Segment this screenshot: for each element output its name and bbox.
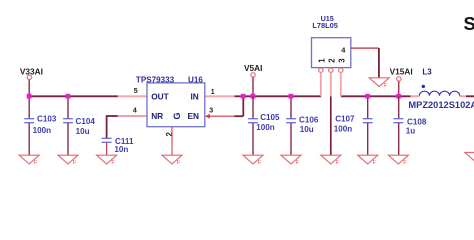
ground (C105) <box>243 155 263 166</box>
power port V33AI <box>20 66 43 96</box>
svg-text:V5AI: V5AI <box>244 63 262 73</box>
capacitor C106 <box>286 96 319 155</box>
svg-text:10u: 10u <box>76 127 90 136</box>
regulator U15 L78L05 box <box>312 14 351 68</box>
ground (right edge partial) <box>465 152 474 163</box>
wire main bus segment middle (V5AI net) <box>235 95 322 97</box>
svg-text:1: 1 <box>211 89 215 96</box>
svg-text:C105: C105 <box>260 113 280 122</box>
junction EN tie <box>240 93 246 99</box>
ground (C107) <box>358 155 378 166</box>
capacitor C105 <box>248 96 280 155</box>
svg-text:V33AI: V33AI <box>20 66 43 76</box>
wire NR elbow to C111 <box>107 115 148 138</box>
capacitor C107 <box>334 96 373 155</box>
U15 pin 4 wire <box>351 48 379 78</box>
ground (C104) <box>58 155 78 166</box>
wire EN tie to IN net <box>234 115 243 117</box>
capacitor C103 <box>24 96 57 155</box>
wire pin stub U16 pin5 <box>118 95 148 97</box>
junction V15AI <box>396 93 402 99</box>
svg-text:U16: U16 <box>188 76 203 85</box>
wire main bus segment right (V15AI net) <box>341 95 411 97</box>
svg-text:EN: EN <box>188 111 200 121</box>
junction C104 <box>65 93 71 99</box>
svg-text:100n: 100n <box>256 123 275 132</box>
svg-text:100n: 100n <box>33 126 52 135</box>
svg-text:MPZ2012S102AT: MPZ2012S102AT <box>408 100 474 110</box>
svg-text:C106: C106 <box>299 115 319 124</box>
ground (U15 pin4) <box>369 78 389 89</box>
svg-text:V15AI: V15AI <box>390 66 413 76</box>
ground (C106) <box>281 155 301 166</box>
svg-text:10n: 10n <box>114 145 128 154</box>
svg-text:L3: L3 <box>422 68 432 77</box>
capacitor C111 <box>102 137 134 155</box>
ground (U16 pin2) <box>162 155 182 166</box>
capacitor C108 <box>394 96 427 155</box>
svg-text:C104: C104 <box>76 117 96 126</box>
wire pin stub U16 pin1 <box>205 95 235 97</box>
wire pin stub L3 right <box>460 95 467 97</box>
capacitor C104 <box>63 96 95 155</box>
svg-text:1u: 1u <box>406 127 416 136</box>
ground (U15 pin2) <box>321 155 341 166</box>
wire to right edge <box>466 95 474 97</box>
svg-text:G: G <box>172 112 182 119</box>
svg-text:TPS79333: TPS79333 <box>136 76 175 85</box>
power port V15AI <box>390 66 413 96</box>
wire main bus segment left (V33AI net) <box>29 95 118 97</box>
U15 pin 3 <box>339 68 343 96</box>
junction C106 <box>288 93 294 99</box>
svg-text:OUT: OUT <box>151 91 169 101</box>
svg-text:100n: 100n <box>334 125 353 134</box>
svg-text:S: S <box>464 13 474 34</box>
EN input arrow <box>205 114 210 119</box>
U16 pin2 wire to ground <box>171 127 173 155</box>
ground (C108) <box>388 155 408 166</box>
svg-text:C103: C103 <box>37 114 57 123</box>
svg-text:C107: C107 <box>335 114 355 123</box>
svg-text:1: 1 <box>318 58 327 63</box>
svg-text:2: 2 <box>165 131 174 136</box>
U15 pin 1 <box>319 68 323 96</box>
ground (C103) <box>19 155 39 166</box>
svg-text:NR: NR <box>151 111 163 121</box>
wire EN pin stub <box>210 115 235 117</box>
svg-text:L78L05: L78L05 <box>312 21 337 30</box>
op-amp U16 TPS79333 regulator box <box>136 76 205 127</box>
svg-text:4: 4 <box>133 108 137 115</box>
junction V33AI <box>26 93 32 99</box>
power port V5AI <box>244 63 262 97</box>
svg-text:2: 2 <box>328 58 337 63</box>
wire pin stub L3 left <box>411 95 420 97</box>
svg-text:10u: 10u <box>300 125 314 134</box>
U15 pin 2 <box>329 68 333 155</box>
svg-text:5: 5 <box>134 88 138 95</box>
junction C107 <box>365 93 371 99</box>
junction V5AI <box>250 93 256 99</box>
svg-text:3: 3 <box>338 58 347 63</box>
inductor L3 <box>408 68 474 111</box>
svg-text:3: 3 <box>209 107 213 114</box>
svg-text:C108: C108 <box>407 118 427 127</box>
ground (C111) <box>97 155 117 166</box>
svg-text:IN: IN <box>191 91 199 101</box>
